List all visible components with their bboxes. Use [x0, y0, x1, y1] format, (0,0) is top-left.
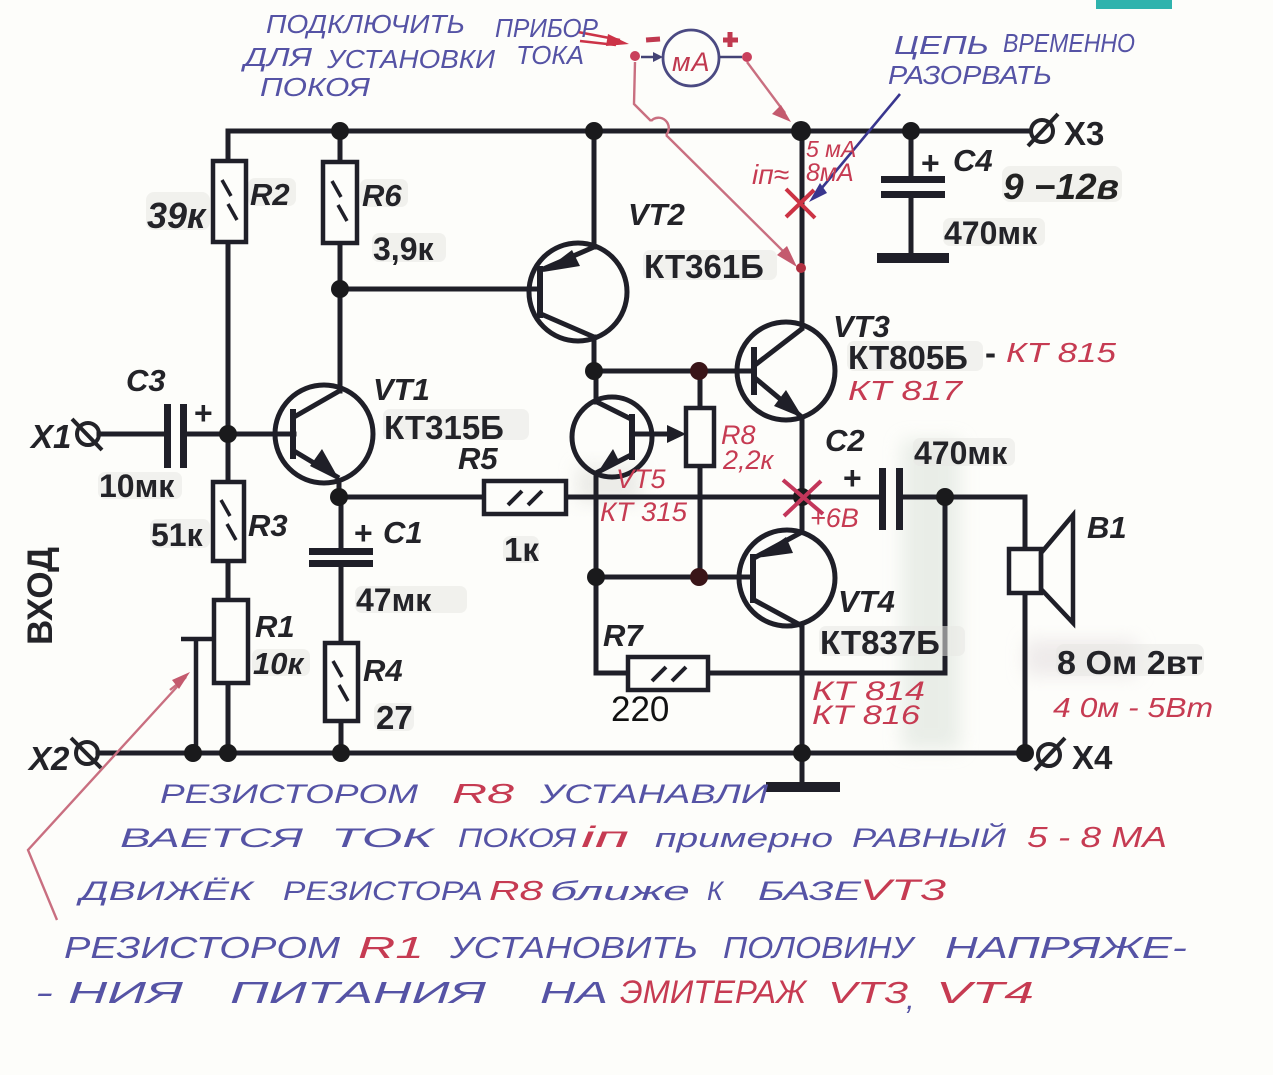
resistor R2 [213, 161, 246, 242]
svg-text:ДВИЖЁК: ДВИЖЁК [75, 876, 256, 906]
wire speaker bottom to bus [1023, 593, 1028, 753]
svg-text:B1: B1 [1087, 510, 1127, 545]
wire R3 to R1 [226, 561, 231, 600]
pink wire meter plus to bus junction [747, 62, 785, 113]
teal scan strip top right [1096, 0, 1172, 9]
svg-text:КТ315Б: КТ315Б [384, 409, 504, 446]
svg-text:ВАЕТСЯ: ВАЕТСЯ [120, 823, 304, 853]
svg-text:X4: X4 [1072, 739, 1113, 776]
wire ground stem [800, 753, 805, 783]
wire R8 top stub [698, 371, 703, 408]
svg-text:27: 27 [376, 699, 413, 736]
svg-text:3,9к: 3,9к [373, 231, 434, 267]
wire C1 to R4 [339, 566, 344, 643]
svg-text:VT2: VT2 [628, 197, 685, 232]
wire VT5 emitter down [594, 473, 599, 577]
wire node to speaker top [945, 497, 1025, 549]
wire C4 lower stem [909, 198, 914, 255]
wire VT4 emitter to output node [800, 497, 805, 532]
svg-text:+: + [921, 145, 940, 181]
svg-text:470мк: 470мк [944, 215, 1038, 251]
svg-text:ПОЛОВИНУ: ПОЛОВИНУ [723, 930, 916, 965]
svg-text:+: + [843, 460, 862, 496]
svg-text:X1: X1 [29, 418, 71, 455]
svg-text:1к: 1к [504, 531, 539, 568]
svg-text:УСТАНАВЛИ: УСТАНАВЛИ [539, 779, 769, 809]
svg-text:VT5: VT5 [616, 464, 667, 494]
capacitor C2 [879, 468, 903, 530]
svg-text:РЕЗИСТОРОМ: РЕЗИСТОРОМ [160, 779, 419, 809]
wire VT4 collector to bottom bus [800, 626, 805, 753]
svg-text:УСТАНОВИТЬ: УСТАНОВИТЬ [449, 930, 698, 965]
wire R8 bottom stub [698, 466, 703, 577]
svg-text:R1: R1 [255, 609, 295, 644]
svg-text:-: - [985, 334, 996, 371]
svg-text:ПРИБОР: ПРИБОР [495, 13, 599, 43]
wire VT3 emitter to output node [800, 418, 805, 497]
wire R7 branch [596, 577, 628, 673]
svg-text:C1: C1 [383, 515, 423, 550]
svg-text:C4: C4 [953, 143, 993, 178]
blue arrow circuit break [816, 94, 900, 195]
svg-text:4 0м - 5Вт: 4 0м - 5Вт [1053, 692, 1213, 723]
svg-text:R4: R4 [363, 653, 403, 688]
wire VT2 emitter to bus [592, 131, 597, 247]
scan patch near VT5 [577, 466, 641, 502]
speaker B1 [1009, 515, 1073, 623]
terminal X3 [1028, 114, 1058, 146]
svg-text:ТОКА: ТОКА [516, 40, 584, 70]
svg-text:КТ 816: КТ 816 [812, 700, 921, 730]
svg-text:R8: R8 [489, 875, 544, 906]
svg-text:iп≈: iп≈ [752, 159, 789, 190]
svg-text:КТ 817: КТ 817 [848, 375, 964, 406]
svg-text:+: + [194, 395, 213, 431]
wire VT1 emitter node to R5 [339, 495, 484, 500]
svg-text:R2: R2 [250, 177, 290, 212]
svg-text:ВРЕМЕННО: ВРЕМЕННО [1003, 28, 1135, 58]
wire R6 top [338, 131, 343, 162]
wire VT5 collector stub [594, 371, 599, 402]
red X output mark [783, 480, 823, 516]
svg-text:39к: 39к [147, 195, 207, 236]
svg-text:,: , [906, 981, 915, 1016]
terminal X2 [71, 738, 101, 768]
meter mA [630, 30, 752, 86]
ground C4 [877, 253, 949, 263]
resistor R3 [213, 482, 244, 561]
capacitor C4 [881, 176, 945, 198]
capacitor C3 [164, 404, 187, 468]
scan smudge band near speaker [902, 440, 960, 750]
transistor VT2 [529, 243, 627, 341]
svg-text:ПОКОЯ: ПОКОЯ [260, 72, 370, 102]
resistor R6 [323, 162, 357, 243]
svg-text:10мк: 10мк [99, 468, 175, 504]
wire VT2 collector down [592, 337, 597, 371]
ground main [766, 782, 840, 792]
trimmer R8 [686, 408, 714, 466]
svg-text:R5: R5 [458, 441, 498, 476]
svg-text:10к: 10к [253, 646, 304, 681]
svg-text:2,2к: 2,2к [722, 445, 775, 475]
scan smudge near 8 Om label [1025, 640, 1137, 676]
svg-text:VT3: VT3 [860, 874, 946, 907]
svg-text:УСТАНОВКИ: УСТАНОВКИ [326, 44, 495, 74]
svg-text:ЭМИТЕРАЖ: ЭМИТЕРАЖ [620, 974, 808, 1010]
svg-text:R7: R7 [603, 618, 644, 653]
svg-text:C3: C3 [126, 363, 166, 398]
svg-text:5 - 8 МА: 5 - 8 МА [1027, 822, 1167, 854]
wire lower rail to VT4 base [596, 575, 753, 580]
svg-text:8 Ом 2вт: 8 Ом 2вт [1057, 644, 1203, 681]
svg-text:ТОК: ТОК [331, 823, 437, 853]
svg-text:примерно: примерно [655, 823, 833, 853]
transistor VT1 [275, 385, 373, 498]
svg-text:C2: C2 [825, 423, 865, 458]
red break dot [796, 263, 806, 273]
wire C4 branch [909, 131, 914, 176]
wire C3 to node to base [186, 432, 294, 437]
svg-text:К: К [707, 876, 725, 906]
svg-text:R6: R6 [362, 178, 402, 213]
wire R4 to bus [339, 721, 344, 753]
transistor VT3 [737, 322, 835, 420]
wire input node to VT1 base [99, 432, 164, 437]
svg-text:- НИЯ: - НИЯ [35, 975, 185, 1010]
svg-text:VT3: VT3 [828, 975, 908, 1010]
resistor R4 [325, 643, 358, 721]
svg-text:470мк: 470мк [914, 435, 1008, 471]
capacitor C1 [309, 548, 373, 567]
svg-text:X3: X3 [1064, 115, 1104, 152]
wire mid rail to VT3 base [594, 369, 754, 374]
wire C1 top stem [339, 497, 344, 548]
svg-text:ЦЕПЬ: ЦЕПЬ [894, 30, 989, 60]
svg-text:+6В: +6В [810, 503, 859, 533]
wire R2 bottom to input node [226, 242, 231, 482]
wire R6 bottom to VT2 base tee [338, 243, 343, 391]
svg-text:R1: R1 [358, 930, 424, 965]
terminal X4 [1035, 738, 1065, 770]
svg-text:R8: R8 [452, 778, 515, 809]
svg-text:ПИТАНИЯ: ПИТАНИЯ [230, 975, 487, 1010]
svg-text:мА: мА [672, 47, 711, 77]
resistor R5 [484, 481, 566, 514]
transistor VT4 [739, 530, 835, 626]
svg-text:ДЛЯ: ДЛЯ [240, 42, 312, 72]
resistor R7 [628, 657, 708, 690]
svg-text:НА: НА [540, 975, 608, 1010]
wire C2 right to node [903, 495, 945, 500]
wire R7 to speaker node [708, 497, 945, 673]
scan halos behind printed labels [98, 166, 1204, 731]
svg-text:9 −12в: 9 −12в [1003, 166, 1119, 207]
svg-text:ПОКОЯ: ПОКОЯ [458, 823, 577, 853]
svg-text:РЕЗИСТОРОМ: РЕЗИСТОРОМ [64, 930, 340, 965]
wire main vertical supply to VT3 [800, 131, 805, 328]
svg-text:51к: 51к [151, 517, 204, 553]
svg-text:РЕЗИСТОРА: РЕЗИСТОРА [283, 876, 483, 906]
potentiometer R1 [181, 600, 248, 753]
svg-text:БАЗЕ: БАЗЕ [758, 876, 862, 906]
svg-text:РАВНЫЙ: РАВНЫЙ [852, 821, 1007, 853]
svg-text:8мА: 8мА [806, 159, 854, 187]
svg-text:КТ 315: КТ 315 [600, 497, 688, 527]
svg-text:КТ837Б: КТ837Б [820, 624, 940, 661]
svg-text:КТ805Б: КТ805Б [848, 339, 968, 376]
svg-text:R3: R3 [248, 508, 288, 543]
svg-text:VT1: VT1 [373, 372, 430, 407]
svg-text:220: 220 [611, 690, 669, 729]
svg-text:+: + [354, 515, 373, 551]
wire bottom ground bus [98, 751, 1025, 756]
svg-text:КТ361Б: КТ361Б [644, 248, 764, 285]
svg-text:ВХОД: ВХОД [21, 547, 60, 645]
svg-text:НАПРЯЖЕ-: НАПРЯЖЕ- [945, 930, 1187, 965]
svg-text:iп: iп [581, 821, 629, 854]
wire top supply bus [228, 131, 1030, 161]
wire R1 to bus [226, 683, 231, 753]
svg-text:VT4: VT4 [838, 584, 895, 619]
wire R5 to output node [566, 495, 880, 500]
pink arrow to R1 wiper [28, 677, 186, 920]
svg-text:X2: X2 [27, 740, 70, 777]
svg-text:ближе: ближе [550, 876, 690, 906]
red X break mark [786, 189, 815, 218]
red arrow to meter [578, 32, 620, 45]
svg-text:VT4: VT4 [936, 975, 1034, 1010]
svg-text:ПОДКЛЮЧИТЬ: ПОДКЛЮЧИТЬ [266, 9, 465, 39]
svg-text:КТ 815: КТ 815 [1006, 337, 1117, 368]
transistor VT5 [572, 397, 680, 477]
pink wire meter minus to break [634, 62, 791, 259]
wire VT2 base [340, 287, 540, 292]
terminal X1 [72, 419, 102, 450]
svg-text:47мк: 47мк [356, 582, 432, 618]
svg-text:РАЗОРВАТЬ: РАЗОРВАТЬ [888, 60, 1052, 90]
